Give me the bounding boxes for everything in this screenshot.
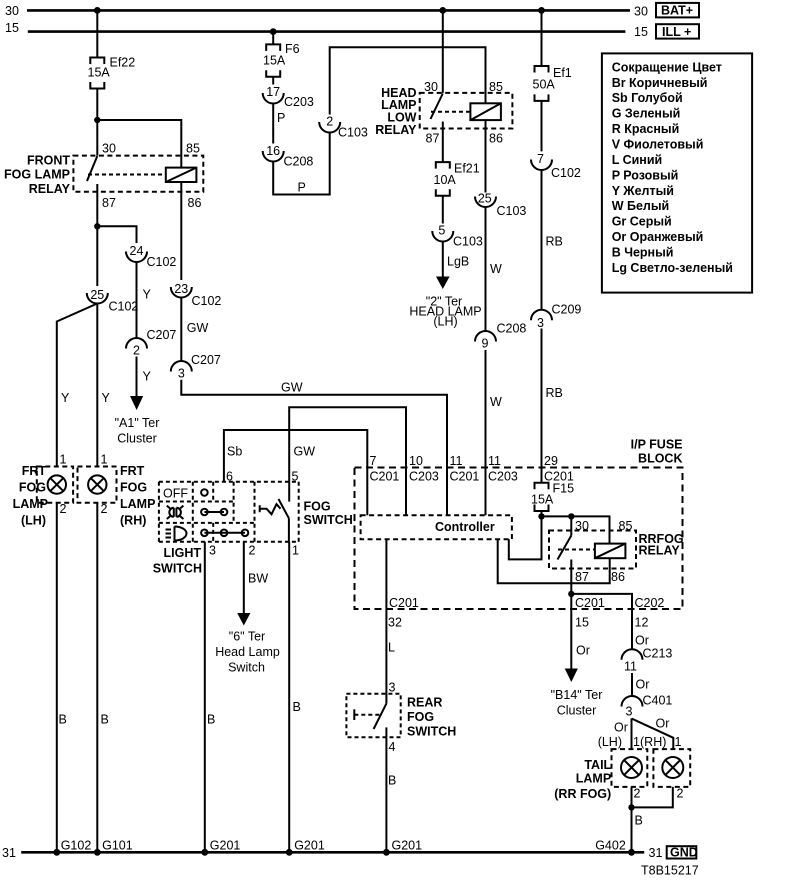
svg-text:2: 2 <box>634 787 641 801</box>
svg-text:1: 1 <box>60 453 67 467</box>
svg-text:11: 11 <box>624 660 637 674</box>
svg-text:C207: C207 <box>191 353 221 367</box>
svg-text:C209: C209 <box>552 303 582 317</box>
wire BW light switch pin2 <box>243 542 245 614</box>
svg-text:RB: RB <box>546 386 563 400</box>
svg-text:C208: C208 <box>497 322 527 336</box>
head lamp icon <box>166 527 187 541</box>
svg-text:LAMP: LAMP <box>13 497 48 511</box>
ground G201 fog switch <box>286 849 293 856</box>
svg-text:R Красный: R Красный <box>612 122 680 136</box>
junction bus15/F6 <box>270 28 277 35</box>
relay FRONT FOG LAMP RELAY <box>4 142 203 211</box>
wire B RH lamp to ground bus <box>96 503 98 853</box>
connector C102 pin24 <box>126 244 176 269</box>
svg-text:B Черный: B Черный <box>612 246 674 260</box>
svg-text:C102: C102 <box>192 294 222 308</box>
connector C207 pin2 <box>126 328 176 358</box>
svg-text:85: 85 <box>186 142 200 156</box>
wire B light switch pin3 to ground <box>204 542 206 853</box>
svg-text:LAMP: LAMP <box>120 497 155 511</box>
junction tail lamps <box>628 804 634 810</box>
svg-text:Sb: Sb <box>227 445 242 459</box>
svg-text:15: 15 <box>575 616 589 630</box>
connector C213 pin11 <box>622 647 673 674</box>
svg-text:(RH): (RH) <box>120 514 146 528</box>
park lamp icon <box>167 506 184 519</box>
svg-text:B: B <box>207 713 215 727</box>
arrow to 2 Ter HEAD LAMP LH <box>436 277 450 290</box>
svg-text:W Белый: W Белый <box>612 199 670 213</box>
svg-text:C203: C203 <box>409 470 439 484</box>
svg-text:12: 12 <box>635 616 649 630</box>
svg-text:C213: C213 <box>643 647 673 661</box>
svg-text:L Синий: L Синий <box>612 153 663 167</box>
svg-text:87: 87 <box>102 196 116 210</box>
svg-text:3: 3 <box>537 316 544 330</box>
svg-text:3: 3 <box>178 367 185 381</box>
connector C103 pin25 <box>475 192 526 219</box>
svg-text:C203: C203 <box>488 470 518 484</box>
ground G201 rear fog switch <box>383 849 390 856</box>
wire pin7 to controller <box>366 468 368 516</box>
svg-text:2: 2 <box>133 344 140 358</box>
lamp TAIL LAMP RH <box>640 735 690 801</box>
svg-text:32: 32 <box>388 616 402 630</box>
wire GW C207 to fuse block pin11 C201 <box>181 380 447 468</box>
svg-text:LAMP: LAMP <box>576 772 611 786</box>
svg-text:BW: BW <box>248 572 268 586</box>
svg-text:GW: GW <box>294 445 316 459</box>
lamp TAIL LAMP LH <box>598 735 648 801</box>
svg-text:Or: Or <box>614 721 628 735</box>
color legend box <box>602 53 752 292</box>
wire Y to RH fog lamp <box>96 304 98 467</box>
wire Y to LH fog lamp <box>57 304 98 467</box>
svg-text:L: L <box>388 641 395 655</box>
arrow to 6 Ter Head Lamp Switch <box>237 613 250 626</box>
junction front fog relay feed split <box>94 117 100 123</box>
wire Or C213 to C401 <box>631 673 633 696</box>
wire Sb light switch pin6 to fuse block pin7 <box>224 430 367 482</box>
svg-text:1: 1 <box>101 453 108 467</box>
connector C207 pin3 <box>171 353 221 381</box>
relay RRFOG RELAY <box>549 516 684 584</box>
wire Or to B14 cluster arrow <box>570 594 572 670</box>
switch LIGHT SWITCH <box>153 482 299 576</box>
ground G201 light switch <box>201 849 208 856</box>
connector C103 pin5 <box>432 224 483 249</box>
svg-text:F6: F6 <box>285 42 300 56</box>
svg-text:Sb Голубой: Sb Голубой <box>612 91 683 105</box>
svg-text:Gr Серый: Gr Серый <box>612 215 672 229</box>
svg-text:15A: 15A <box>531 493 554 507</box>
relay HEAD LAMP LOW RELAY <box>375 80 512 146</box>
svg-text:Or: Or <box>635 634 649 648</box>
switch REAR FOG SWITCH <box>346 694 456 739</box>
junction bus30/Ef1 <box>538 7 545 14</box>
svg-text:B: B <box>388 774 396 788</box>
svg-text:Head Lamp: Head Lamp <box>215 645 280 659</box>
svg-text:ILL +: ILL + <box>662 25 691 39</box>
svg-text:GND: GND <box>670 846 698 860</box>
svg-text:Ef1: Ef1 <box>553 66 572 80</box>
svg-text:1: 1 <box>675 735 682 749</box>
svg-text:3: 3 <box>389 681 396 695</box>
svg-text:Or: Or <box>576 644 590 658</box>
svg-text:W: W <box>490 395 502 409</box>
connector C208 pin9 <box>475 322 526 351</box>
svg-text:Or Оранжевый: Or Оранжевый <box>612 230 704 244</box>
svg-text:Controller: Controller <box>435 520 495 534</box>
I/P FUSE BLOCK outline <box>355 438 683 610</box>
svg-text:Cluster: Cluster <box>557 704 597 718</box>
light switch contacts <box>201 489 248 536</box>
wire controller to RRFOG coil pin86 <box>498 539 610 583</box>
svg-text:C201: C201 <box>450 470 480 484</box>
svg-text:Y: Y <box>143 288 152 302</box>
svg-text:Or: Or <box>656 717 670 731</box>
wire relay pin87 to Ef21 <box>442 122 444 163</box>
svg-text:15A: 15A <box>263 54 286 68</box>
wire branch to C102 pin24 <box>97 226 136 243</box>
wire LH tail lamp to junction <box>631 787 633 852</box>
fuse Ef1 50A <box>533 66 572 101</box>
svg-text:2: 2 <box>326 115 333 129</box>
wire B LH lamp to ground bus <box>56 503 58 853</box>
wire bus30 to fuse Ef22 <box>96 10 98 57</box>
wire pin11b to controller <box>485 468 487 516</box>
svg-text:OFF: OFF <box>163 487 188 501</box>
svg-text:2: 2 <box>60 502 67 516</box>
wire bus15 to fuse F6 <box>272 32 274 45</box>
junction F15 output <box>538 513 544 519</box>
lamp FRT FOG LAMP (RH) <box>78 453 156 528</box>
svg-text:G201: G201 <box>210 839 241 853</box>
svg-text:31: 31 <box>649 846 663 860</box>
wire pin11 to controller <box>446 468 448 516</box>
wire RRFOG pin87 down <box>570 560 572 594</box>
svg-text:86: 86 <box>489 132 503 146</box>
ground G102 <box>53 849 60 856</box>
connector C208 pin16 <box>263 144 314 169</box>
svg-text:Ef22: Ef22 <box>110 56 136 70</box>
svg-text:Y: Y <box>61 391 70 405</box>
svg-text:Lg Светло-зеленый: Lg Светло-зеленый <box>612 261 733 275</box>
svg-text:RELAY: RELAY <box>29 182 71 196</box>
svg-text:Or: Or <box>636 678 650 692</box>
svg-text:G201: G201 <box>294 839 325 853</box>
svg-text:RB: RB <box>546 235 563 249</box>
svg-text:31: 31 <box>2 846 16 860</box>
svg-text:C401: C401 <box>643 694 673 708</box>
svg-text:30: 30 <box>634 5 648 19</box>
svg-text:86: 86 <box>611 570 625 584</box>
svg-text:P: P <box>298 181 306 195</box>
svg-text:30: 30 <box>5 4 19 18</box>
svg-text:3: 3 <box>626 705 633 719</box>
fuse F15 15A <box>531 482 574 512</box>
wire Y to A1 cluster arrow <box>136 357 138 398</box>
svg-text:Сокращение Цвет: Сокращение Цвет <box>612 60 722 74</box>
svg-text:C201: C201 <box>370 470 400 484</box>
junction pin87 output <box>568 591 574 597</box>
svg-text:"6" Ter: "6" Ter <box>229 630 265 644</box>
wire P C208 to C103 <box>273 133 330 195</box>
svg-text:Cluster: Cluster <box>117 432 157 446</box>
connector C102 pin23 <box>171 282 222 308</box>
arrow to B14 Ter Cluster <box>565 669 578 683</box>
svg-text:25: 25 <box>478 192 492 206</box>
svg-text:25: 25 <box>90 288 104 302</box>
wire B rear fog switch pin4 to ground <box>385 737 387 852</box>
switch FOG SWITCH <box>260 482 353 542</box>
node ILL+ terminal box <box>656 24 699 39</box>
svg-text:C201: C201 <box>575 596 605 610</box>
svg-text:V Фиолетовый: V Фиолетовый <box>612 138 704 152</box>
svg-text:50A: 50A <box>533 78 556 92</box>
svg-text:GW: GW <box>187 321 209 335</box>
svg-text:G101: G101 <box>102 839 133 853</box>
svg-text:Switch: Switch <box>228 661 265 675</box>
connector C209 pin3 <box>531 303 581 331</box>
wire Ef1 to C102 pin7 <box>541 101 543 151</box>
svg-text:(RH): (RH) <box>640 735 666 749</box>
svg-text:23: 23 <box>174 282 188 296</box>
svg-text:(LH): (LH) <box>433 315 457 329</box>
svg-text:(LH): (LH) <box>21 514 46 528</box>
svg-text:5: 5 <box>438 224 445 238</box>
svg-text:15: 15 <box>634 25 648 39</box>
wire F6 to C203 <box>272 77 274 85</box>
wire F15 to junction <box>541 511 543 516</box>
svg-text:17: 17 <box>266 85 280 99</box>
wire relay pin87 down <box>96 184 98 286</box>
svg-text:LIGHT: LIGHT <box>164 546 202 560</box>
svg-text:I/P FUSE: I/P FUSE <box>631 438 683 452</box>
wire L controller pin32 to rear fog switch <box>385 539 387 694</box>
svg-text:2: 2 <box>101 502 108 516</box>
junction RRFOG pin30 feed <box>568 513 574 519</box>
wire Ef21 to C103 pin5 <box>442 196 444 224</box>
wire pin10 to controller <box>405 468 407 516</box>
svg-text:Y: Y <box>143 370 152 384</box>
connector C103 pin2 <box>319 115 368 140</box>
svg-text:B: B <box>101 713 109 727</box>
wire W C208 to fuse block pin11 <box>485 350 487 468</box>
svg-text:FRONT: FRONT <box>27 154 70 168</box>
wire pin29 to F15 <box>541 468 543 483</box>
wire Or to LH tail lamp <box>631 719 633 750</box>
fuse Ef22 15A <box>88 56 136 89</box>
junction pin87 branch <box>94 223 100 229</box>
ground G101 <box>94 849 101 856</box>
svg-text:C202: C202 <box>635 596 665 610</box>
svg-text:3: 3 <box>209 544 216 558</box>
svg-text:15A: 15A <box>88 66 111 80</box>
svg-text:B: B <box>635 814 643 828</box>
svg-text:87: 87 <box>426 132 440 146</box>
connector C401 pin3 <box>622 694 673 719</box>
svg-text:2: 2 <box>677 787 684 801</box>
svg-text:P Розовый: P Розовый <box>612 168 679 182</box>
svg-text:SWITCH: SWITCH <box>304 513 353 527</box>
controller box <box>361 515 512 539</box>
svg-text:C103: C103 <box>497 204 527 218</box>
svg-text:W: W <box>490 262 502 276</box>
svg-text:FOG: FOG <box>304 500 331 514</box>
svg-text:TAIL: TAIL <box>584 758 611 772</box>
svg-text:C203: C203 <box>284 95 314 109</box>
svg-text:11: 11 <box>450 454 463 468</box>
wire branch to C202 pin12 <box>571 594 632 649</box>
wire junction to controller <box>509 516 542 559</box>
svg-text:T8B15217: T8B15217 <box>641 864 699 878</box>
wire Or to RH tail lamp <box>632 719 674 750</box>
wire RH tail lamp to junction <box>632 787 673 808</box>
svg-text:C102: C102 <box>109 300 139 314</box>
svg-text:C207: C207 <box>147 328 177 342</box>
svg-text:G402: G402 <box>595 839 626 853</box>
wire GW C102 to C207 <box>180 298 182 362</box>
svg-text:1: 1 <box>292 544 299 558</box>
junction bus30/headlamp relay <box>439 7 446 14</box>
svg-text:29: 29 <box>544 454 558 468</box>
wire W C103 to C208 <box>485 207 487 331</box>
svg-text:1: 1 <box>633 735 640 749</box>
wire B fog switch pin1 to ground <box>288 542 290 853</box>
svg-text:FRT: FRT <box>120 464 145 478</box>
svg-text:24: 24 <box>130 244 144 258</box>
wire relay pin86 down <box>180 182 182 280</box>
wire bus 30 <box>27 9 630 12</box>
svg-text:C201: C201 <box>389 596 419 610</box>
svg-text:7: 7 <box>537 152 544 166</box>
svg-text:(LH): (LH) <box>598 735 622 749</box>
svg-text:C102: C102 <box>147 255 177 269</box>
svg-text:87: 87 <box>575 570 589 584</box>
wire LgB to head lamp arrow <box>442 242 444 278</box>
svg-text:G201: G201 <box>392 839 423 853</box>
wire P C203 to C208 <box>272 104 274 144</box>
svg-text:16: 16 <box>266 144 280 158</box>
svg-text:10A: 10A <box>434 173 457 187</box>
fuse F6 15A <box>263 42 300 77</box>
svg-text:"A1" Ter: "A1" Ter <box>115 416 160 430</box>
fuse Ef21 10A <box>434 162 480 196</box>
svg-text:RELAY: RELAY <box>375 123 417 137</box>
lamp FRT FOG LAMP (LH) <box>13 453 74 528</box>
svg-text:"B14" Ter: "B14" Ter <box>551 688 603 702</box>
svg-text:86: 86 <box>188 196 202 210</box>
connector C102 pin7 <box>531 152 581 180</box>
svg-text:B: B <box>59 713 67 727</box>
wire branch to relay pin85 <box>97 120 181 168</box>
node BAT+ terminal box <box>656 3 699 18</box>
svg-text:BAT+: BAT+ <box>661 4 693 18</box>
svg-text:Br Коричневый: Br Коричневый <box>612 76 708 90</box>
arrow to A1 Ter Cluster <box>130 396 143 410</box>
svg-text:FOG: FOG <box>407 710 434 724</box>
svg-text:GW: GW <box>281 381 303 395</box>
wire junction to RRFOG coil pin85 <box>542 516 610 543</box>
wire bus30 to headlamp relay pin30 <box>442 10 444 93</box>
svg-text:(RR FOG): (RR FOG) <box>554 787 611 801</box>
wire RB C102 to C209 <box>541 170 543 310</box>
svg-text:15: 15 <box>5 21 19 35</box>
svg-text:G Зеленый: G Зеленый <box>612 107 681 121</box>
svg-text:30: 30 <box>102 142 116 156</box>
wire relay pin86 W down <box>485 120 487 192</box>
svg-text:FRT: FRT <box>22 464 47 478</box>
svg-text:SWITCH: SWITCH <box>153 562 202 576</box>
svg-text:11: 11 <box>488 454 501 468</box>
svg-text:C103: C103 <box>453 235 483 249</box>
connector C102 pin25 <box>87 288 139 314</box>
svg-text:9: 9 <box>482 337 489 351</box>
svg-text:C208: C208 <box>284 155 314 169</box>
svg-text:FOG LAMP: FOG LAMP <box>4 168 70 182</box>
wire RB C209 to fuse block pin29 <box>541 329 543 468</box>
svg-text:2: 2 <box>249 544 256 558</box>
svg-text:C102: C102 <box>551 166 581 180</box>
svg-text:BLOCK: BLOCK <box>638 452 682 466</box>
svg-text:REAR: REAR <box>407 696 442 710</box>
svg-text:C103: C103 <box>338 126 368 140</box>
wire Ef22 to relay pin30 <box>96 89 98 156</box>
svg-text:4: 4 <box>389 740 396 754</box>
ground G402 <box>628 849 635 856</box>
wire C103 pin2 to headlamp relay pin85 <box>330 47 486 114</box>
wire GW fog switch pin5 to fuse block pin10 <box>289 407 406 482</box>
junction bus30/Ef22 <box>94 7 101 14</box>
wire bus30 to fuse Ef1 <box>541 10 543 66</box>
svg-text:B: B <box>293 700 301 714</box>
connector C203 pin17 <box>263 85 314 109</box>
svg-text:10: 10 <box>409 454 423 468</box>
svg-text:RELAY: RELAY <box>639 544 681 558</box>
wire bus 15 <box>28 30 626 33</box>
svg-text:F15: F15 <box>553 482 575 496</box>
svg-text:P: P <box>277 111 285 125</box>
svg-text:Ef21: Ef21 <box>454 162 480 176</box>
svg-text:SWITCH: SWITCH <box>407 725 456 739</box>
svg-text:7: 7 <box>370 454 377 468</box>
svg-text:Y: Y <box>102 391 111 405</box>
svg-text:G102: G102 <box>61 839 92 853</box>
svg-text:LgB: LgB <box>447 255 469 269</box>
svg-text:Y Желтый: Y Желтый <box>612 184 674 198</box>
svg-text:FOG: FOG <box>120 481 147 495</box>
svg-text:FOG: FOG <box>19 481 46 495</box>
wire Y pin24 to C207 <box>136 262 138 338</box>
